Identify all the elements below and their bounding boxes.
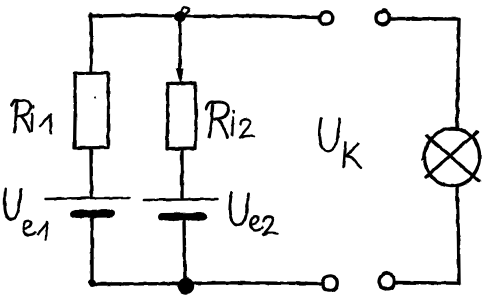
node bottom-left corner dot [88,279,96,287]
resistor R_i2 [167,83,196,149]
terminal bottom-left open circle [323,276,337,291]
battery U_e2 long plate [144,199,218,200]
label R_i1 [12,100,51,133]
node junction top [174,7,189,22]
resistor R_i1 [75,73,109,148]
battery U_e1 long plate [45,198,129,199]
lamp small tick left [422,150,427,160]
wire Ri1 bottom to battery [89,148,93,197]
wire battery2 to bottom junction [184,220,185,284]
label R_i2 [206,102,254,138]
wire battery1 to bottom [90,218,93,283]
terminal top-right open circle [376,10,389,25]
node junction bottom [178,278,194,294]
wire top-right to lamp [390,17,459,21]
terminal top-left open circle [320,12,333,24]
lamp cross stroke 1 [427,136,479,181]
battery U_e2 thick plate [162,213,203,222]
wire Ri2 bottom to battery2 [180,150,183,198]
wire bottom-right horizontal [396,281,459,285]
speck inside resistor R_i1 [94,96,96,98]
wire top horizontal [90,15,319,17]
wire right vertical top [457,19,459,128]
label U_e1 [5,189,47,240]
label U_e2 [230,193,278,235]
lamp cross stroke 2 [426,132,477,177]
lamp X1 circle [425,129,480,187]
label U_K [319,118,361,168]
arrowhead into Ri2 [177,69,184,83]
wire lamp bottom to corner [457,186,459,283]
terminal bottom-right open circle [380,273,395,289]
wire arrow shaft to Ri2 [178,18,181,70]
wire left vertical top [89,15,93,73]
wire bottom horizontal [92,283,322,284]
battery U_e1 thick plate [74,210,111,219]
